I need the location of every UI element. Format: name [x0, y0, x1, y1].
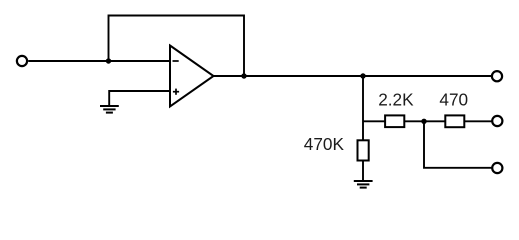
wire divider tap down to 470K: [362, 76, 364, 141]
svg-text:470K: 470K: [304, 134, 345, 154]
input terminal J1: [17, 56, 27, 66]
ground (below 470K): [354, 181, 373, 188]
resistor R3 470: [445, 115, 464, 127]
node output-feedback junction: [241, 73, 246, 78]
output terminal J4: [492, 163, 502, 173]
wire 2.2K to junction: [404, 120, 445, 122]
svg-text:470: 470: [439, 90, 468, 110]
node divider tap: [360, 73, 365, 78]
op-amp U1: [170, 46, 214, 107]
wire 470 to middle terminal: [464, 120, 491, 122]
wire divider tap to 2.2K: [363, 120, 385, 122]
output terminal J3: [492, 116, 502, 126]
wire junction to bottom terminal: [424, 121, 492, 168]
wire non-inverting input to ground: [109, 91, 170, 106]
wire input to op-amp inverting input: [28, 60, 170, 62]
wire feedback loop: [109, 16, 245, 77]
resistor R1 470K: [358, 140, 369, 160]
pin + non-inverting input: [173, 89, 179, 95]
svg-text:2.2K: 2.2K: [378, 90, 414, 110]
pin - inverting input: [173, 60, 179, 62]
ground (op-amp non-inverting input): [100, 106, 119, 113]
wire op-amp output to top terminal: [214, 75, 492, 77]
node 2.2K/470 junction: [421, 119, 426, 124]
output terminal J2: [492, 71, 502, 81]
resistor R2 2.2K: [385, 115, 404, 127]
node feedback tap: [106, 58, 111, 63]
wire 470K to ground: [362, 161, 364, 182]
